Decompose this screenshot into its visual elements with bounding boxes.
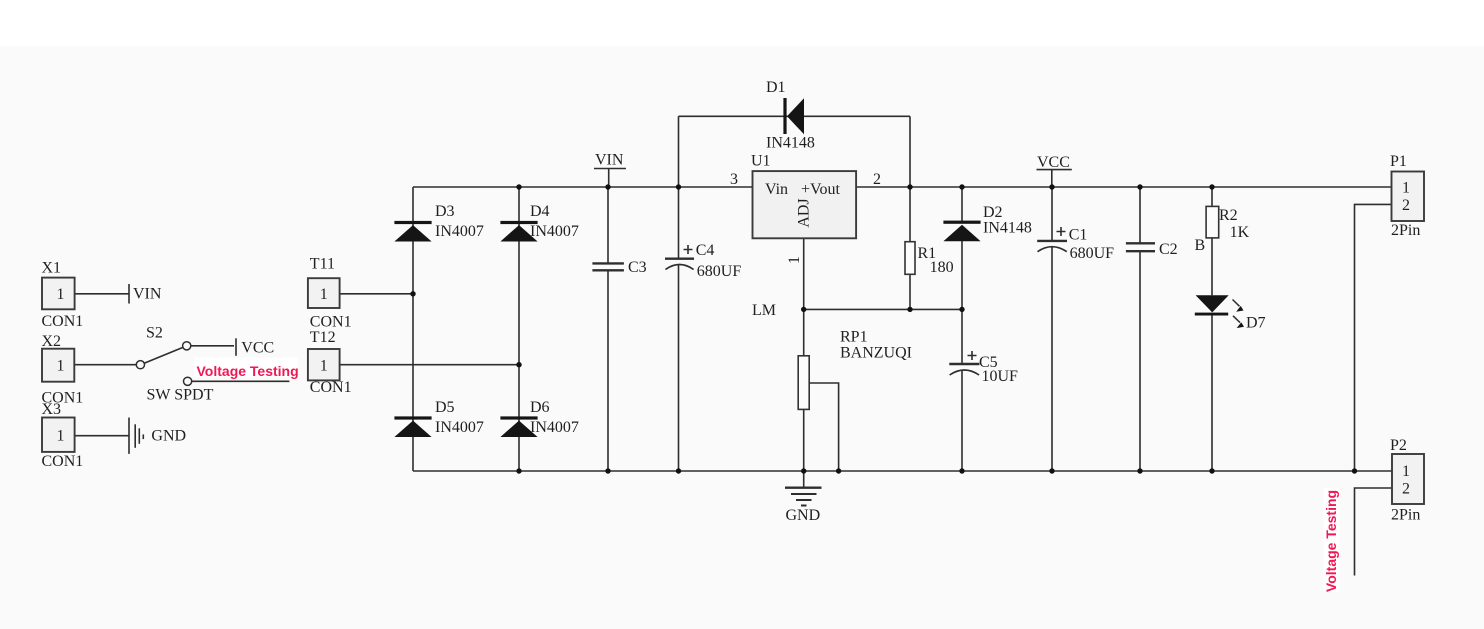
svg-text:IN4148: IN4148 xyxy=(766,135,815,152)
svg-text:P1: P1 xyxy=(1390,153,1407,170)
svg-text:IN4007: IN4007 xyxy=(530,419,579,436)
svg-text:1: 1 xyxy=(1402,180,1410,197)
svg-text:VIN: VIN xyxy=(133,286,162,303)
svg-text:B: B xyxy=(1195,237,1206,254)
svg-text:1: 1 xyxy=(57,358,65,375)
svg-text:D4: D4 xyxy=(530,203,550,220)
svg-text:IN4007: IN4007 xyxy=(435,223,484,240)
svg-text:2: 2 xyxy=(1402,197,1410,214)
svg-text:D1: D1 xyxy=(766,79,786,96)
svg-text:2: 2 xyxy=(873,171,881,188)
svg-text:GND: GND xyxy=(151,428,186,445)
svg-text:2Pin: 2Pin xyxy=(1391,507,1420,524)
svg-text:BANZUQI: BANZUQI xyxy=(840,345,912,362)
svg-text:1: 1 xyxy=(57,428,65,445)
svg-text:X2: X2 xyxy=(42,333,62,350)
svg-text:1K: 1K xyxy=(1230,224,1250,241)
svg-text:GND: GND xyxy=(786,507,821,524)
svg-text:Vin: Vin xyxy=(765,181,788,198)
svg-text:680UF: 680UF xyxy=(1070,245,1115,262)
svg-text:10UF: 10UF xyxy=(982,368,1019,385)
svg-text:D6: D6 xyxy=(530,399,550,416)
svg-text:RP1: RP1 xyxy=(840,329,868,346)
svg-text:2: 2 xyxy=(1402,481,1410,498)
svg-text:3: 3 xyxy=(730,171,738,188)
svg-text:IN4148: IN4148 xyxy=(983,219,1032,236)
svg-text:CON1: CON1 xyxy=(310,379,352,396)
svg-text:CON1: CON1 xyxy=(42,453,84,470)
svg-text:VCC: VCC xyxy=(1037,154,1070,171)
svg-text:S2: S2 xyxy=(146,325,163,342)
svg-text:IN4007: IN4007 xyxy=(435,419,484,436)
svg-text:1: 1 xyxy=(786,256,803,264)
svg-text:C3: C3 xyxy=(628,259,647,276)
svg-text:1: 1 xyxy=(320,358,328,375)
svg-text:D7: D7 xyxy=(1246,315,1266,332)
svg-text:2Pin: 2Pin xyxy=(1391,222,1420,239)
svg-text:D5: D5 xyxy=(435,399,455,416)
svg-text:1: 1 xyxy=(1402,463,1410,480)
svg-text:P2: P2 xyxy=(1390,437,1407,454)
svg-text:C1: C1 xyxy=(1069,226,1088,243)
svg-text:X1: X1 xyxy=(42,260,62,277)
svg-text:R2: R2 xyxy=(1219,207,1238,224)
svg-text:D3: D3 xyxy=(435,203,455,220)
svg-text:1: 1 xyxy=(320,286,328,303)
svg-text:+Vout: +Vout xyxy=(801,181,841,198)
svg-text:1: 1 xyxy=(57,286,65,303)
svg-text:Voltage Testing: Voltage Testing xyxy=(197,363,299,379)
svg-text:T12: T12 xyxy=(310,329,336,346)
svg-text:T11: T11 xyxy=(310,255,335,272)
svg-text:VIN: VIN xyxy=(595,152,624,169)
svg-text:Voltage Testing: Voltage Testing xyxy=(1323,490,1339,592)
svg-text:CON1: CON1 xyxy=(310,313,352,330)
svg-text:SW SPDT: SW SPDT xyxy=(147,387,214,404)
svg-text:X3: X3 xyxy=(42,401,62,418)
svg-text:IN4007: IN4007 xyxy=(530,223,579,240)
svg-text:VCC: VCC xyxy=(241,340,274,357)
svg-text:CON1: CON1 xyxy=(42,313,84,330)
svg-text:LM: LM xyxy=(752,302,776,319)
svg-text:180: 180 xyxy=(930,259,954,276)
svg-text:C4: C4 xyxy=(696,242,715,259)
svg-text:U1: U1 xyxy=(751,153,771,170)
svg-text:C2: C2 xyxy=(1159,241,1178,258)
svg-text:ADJ: ADJ xyxy=(796,198,813,227)
svg-text:680UF: 680UF xyxy=(697,263,742,280)
